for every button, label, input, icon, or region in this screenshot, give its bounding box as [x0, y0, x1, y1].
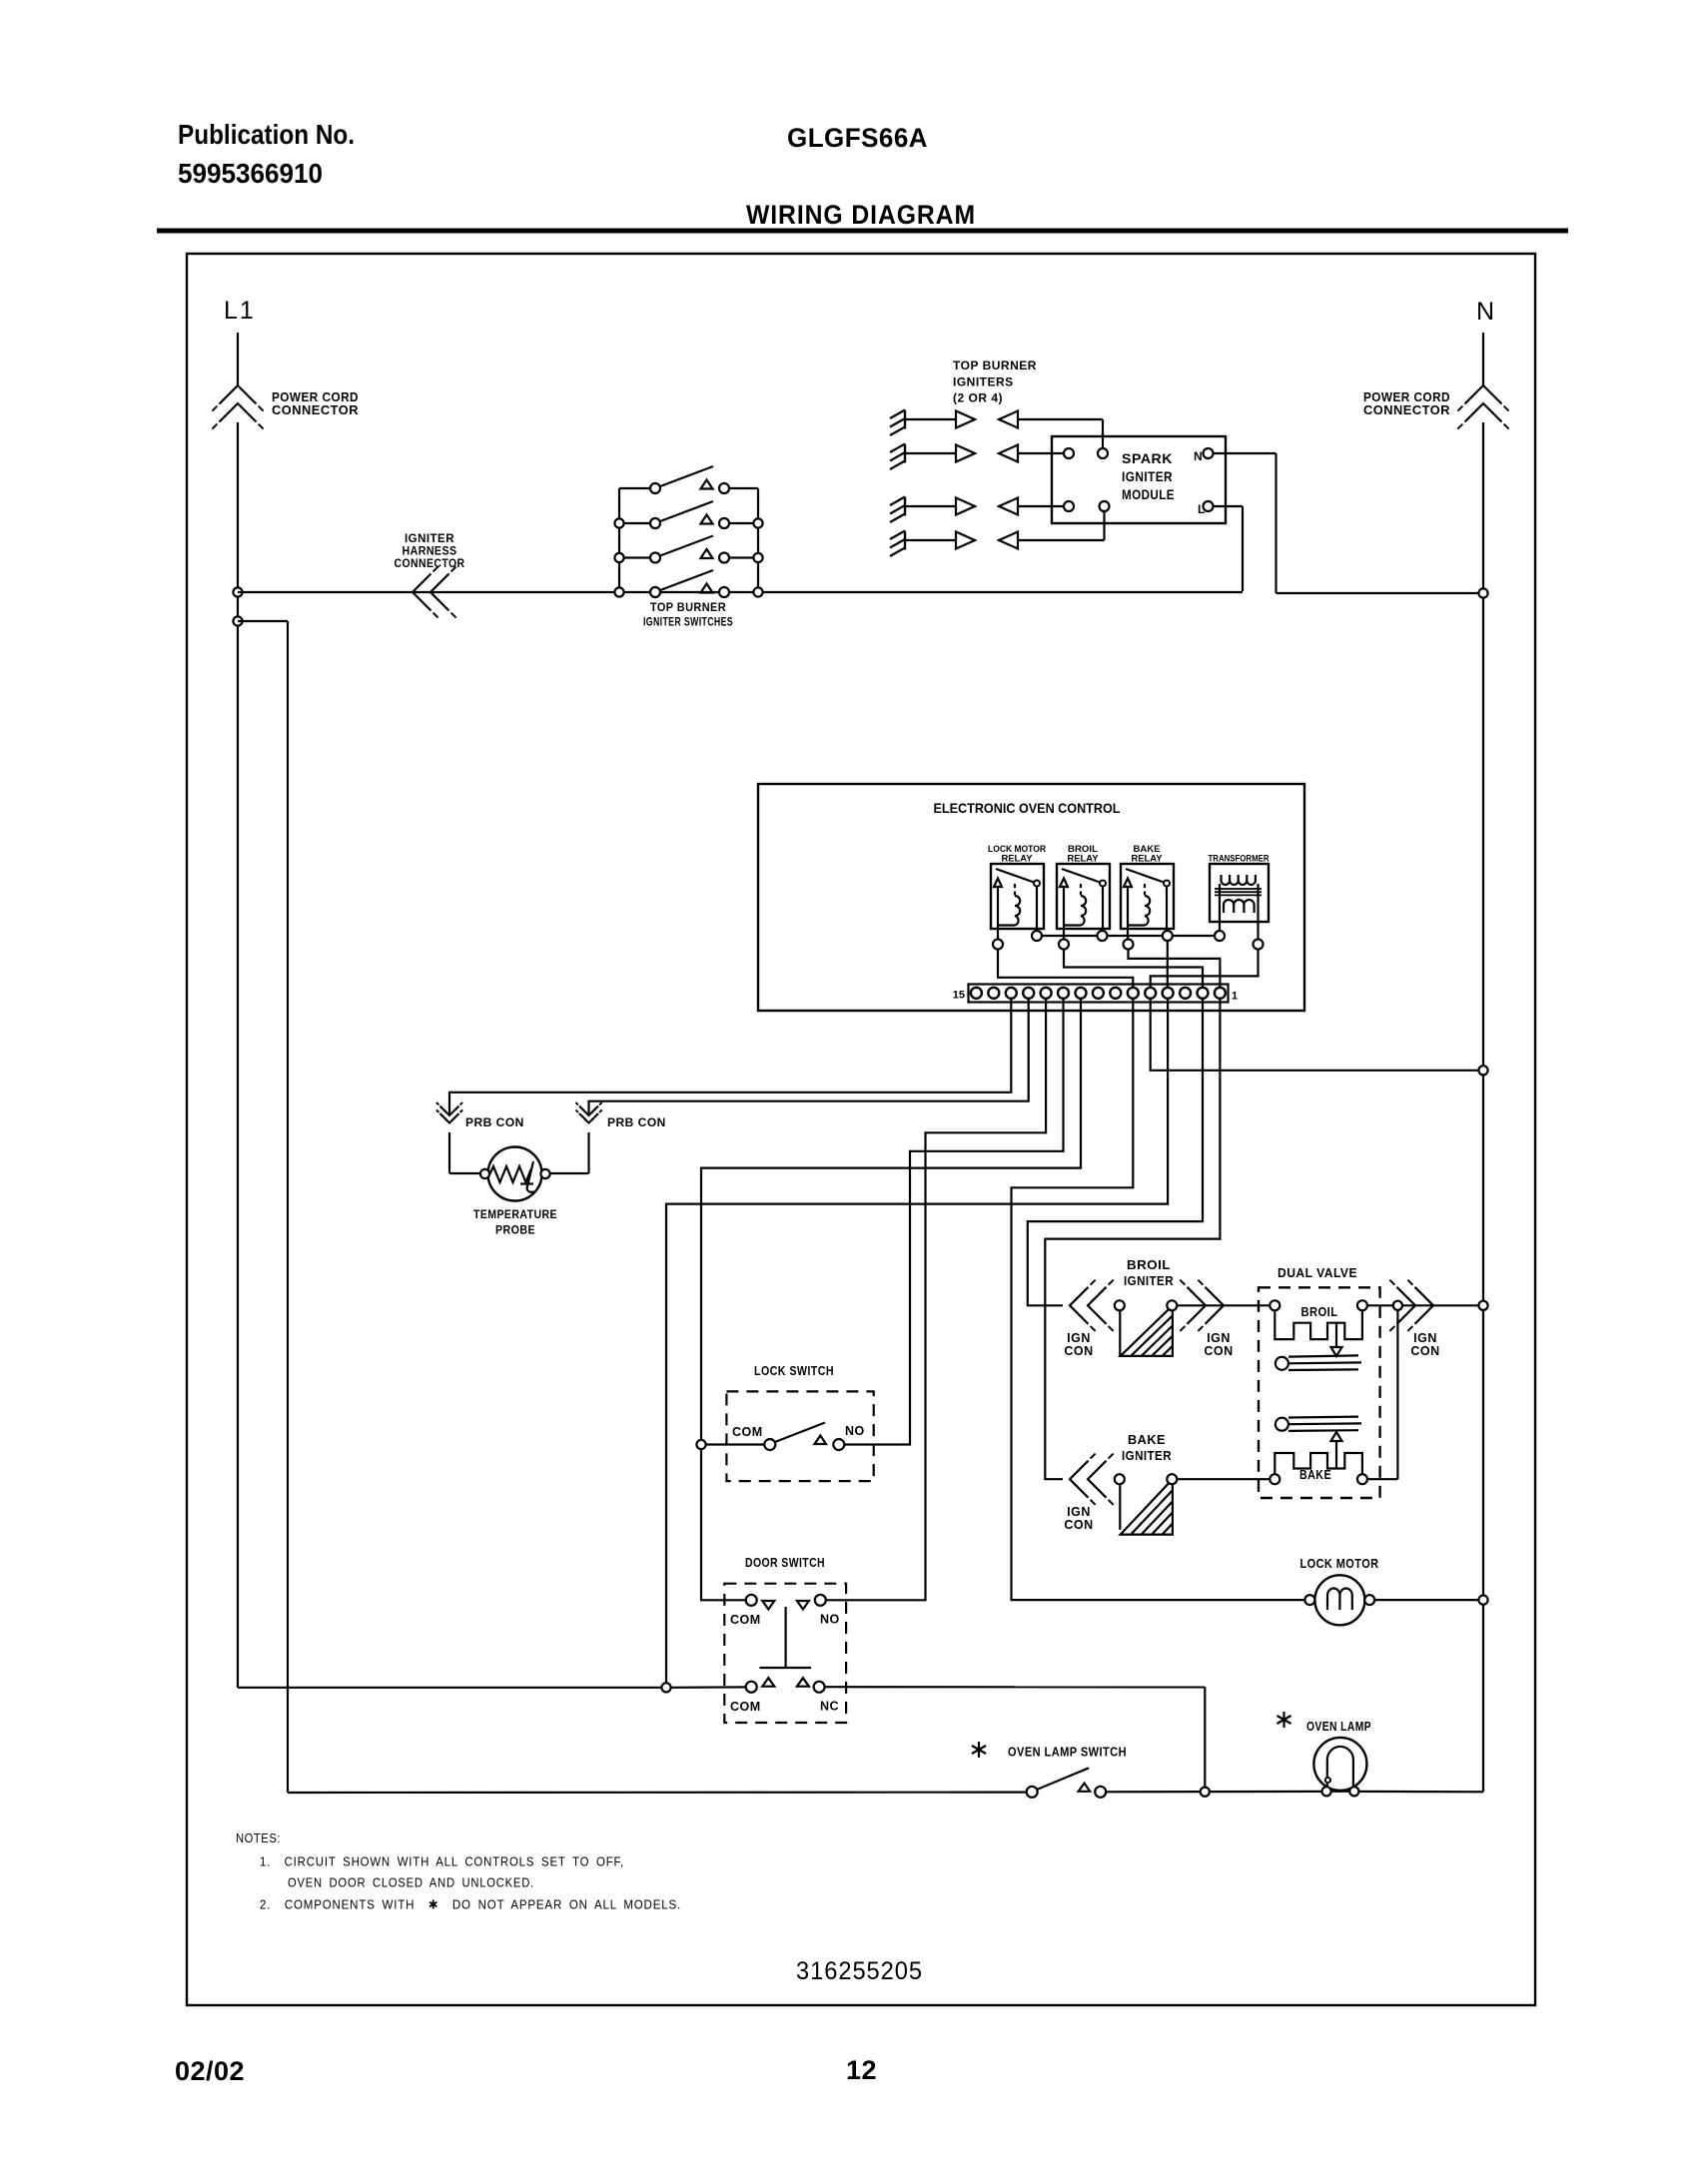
- lock motor M1: [1314, 1575, 1364, 1625]
- wire: pin 13 to probe connector: [449, 999, 1011, 1114]
- svg-text:BROIL: BROIL: [1301, 1305, 1338, 1319]
- module terminal row3: [1064, 501, 1074, 511]
- svg-text:ELECTRONIC OVEN CONTROL: ELECTRONIC OVEN CONTROL: [934, 800, 1121, 816]
- wire: PRB CON 2 to probe: [587, 1132, 589, 1173]
- top burner igniter 1 electrode and spark gap: [904, 410, 906, 429]
- svg-text:CONNECTOR: CONNECTOR: [1363, 403, 1450, 417]
- terminal: lock relay contact: [1032, 931, 1042, 941]
- dual valve box: [1259, 1287, 1380, 1498]
- svg-text:CON: CON: [1064, 1344, 1093, 1358]
- svg-text:(2 OR 4): (2 OR 4): [953, 391, 1003, 405]
- wire: module N to N rail: [1214, 452, 1277, 454]
- terminal: broil relay contact: [1098, 931, 1108, 941]
- relay K3 bake relay: [1121, 864, 1174, 929]
- svg-text:CON: CON: [1064, 1518, 1093, 1532]
- junction: left rail row2: [614, 518, 623, 527]
- valve terminal broil right: [1357, 1300, 1367, 1310]
- wire: pin 1 to bake igniter: [1045, 999, 1220, 1479]
- junction: right rail row3: [753, 553, 762, 562]
- power cord connector (L1): [220, 385, 257, 404]
- asterisk: oven lamp switch: [972, 1742, 986, 1758]
- module terminal row2: [1064, 448, 1074, 458]
- valve terminal bake left: [1270, 1474, 1280, 1484]
- svg-text:Publication No.: Publication No.: [178, 119, 355, 150]
- svg-text:NO: NO: [845, 1424, 865, 1438]
- svg-text:TEMPERATURE: TEMPERATURE: [473, 1207, 557, 1221]
- terminal: bake relay coil: [1124, 940, 1134, 950]
- wire: pin 9 to lock/door switch COM: [701, 999, 1081, 1601]
- wire: door switch NC to lamp wire: [825, 1686, 1206, 1688]
- wire: switch bank right rail: [757, 488, 759, 592]
- lock switch box: [726, 1391, 873, 1481]
- top burner igniter 4 electrode and spark gap: [904, 531, 906, 550]
- svg-text:CON: CON: [1410, 1344, 1439, 1358]
- door switch upper pole: [746, 1595, 757, 1606]
- valve terminal broil left: [1270, 1300, 1280, 1310]
- svg-text:POWER CORD: POWER CORD: [1363, 390, 1450, 404]
- transformer T1: [1210, 864, 1269, 922]
- wire: L1 lead above connector: [237, 333, 239, 385]
- top burner igniter switch 2: [619, 522, 650, 524]
- door switch box: [724, 1584, 846, 1723]
- wire: L1 rail vertical: [237, 422, 239, 1688]
- junction: left rail row3: [614, 553, 623, 562]
- wire: pin 6 to lock motor: [1012, 999, 1305, 1600]
- wire: lamp terminal bridge: [1331, 1791, 1350, 1793]
- svg-text:IGNITER SWITCHES: IGNITER SWITCHES: [643, 615, 733, 629]
- ign con connector (valve right): [1415, 1287, 1434, 1324]
- svg-text:TOP BURNER: TOP BURNER: [650, 600, 726, 614]
- wire: broil coil to pin 2: [1064, 950, 1203, 988]
- svg-text:LOCK MOTOR: LOCK MOTOR: [1300, 1557, 1379, 1571]
- igniter harness connector: [413, 574, 431, 611]
- wire: lock switch COM branch: [706, 1443, 765, 1445]
- wire: lamp to N rail: [1358, 1791, 1483, 1794]
- wire: bake valve to common: [1367, 1478, 1398, 1480]
- wire: pin 2 to broil igniter: [1028, 999, 1203, 1306]
- svg-text:2. COMPONENTS WITH ✱ DO NOT: 2. COMPONENTS WITH ✱ DO NOT APPEAR ON AL…: [260, 1898, 681, 1912]
- wire: module L to main bus: [1214, 505, 1244, 507]
- svg-text:L1: L1: [224, 297, 256, 325]
- wire: bottom lamp feed: [288, 1791, 1027, 1794]
- wire: switch bank left rail: [618, 488, 620, 592]
- terminal: lock relay coil: [993, 940, 1003, 950]
- svg-text:12: 12: [846, 2055, 877, 2085]
- wire: broil igniter to valve: [1177, 1304, 1270, 1306]
- module terminal row1: [1098, 448, 1108, 458]
- module terminal row4: [1100, 501, 1110, 511]
- svg-text:DUAL VALVE: DUAL VALVE: [1278, 1265, 1357, 1280]
- wire: lock coil to pin 6: [998, 950, 1133, 988]
- junction: N wire on N rail: [1478, 588, 1487, 597]
- door switch lower pole: [746, 1682, 757, 1693]
- module terminal N: [1204, 448, 1214, 458]
- wire: main L1 bus horizontal: [238, 591, 1243, 593]
- svg-text:OVEN DOOR CLOSED AND UNLOCKED.: OVEN DOOR CLOSED AND UNLOCKED.: [288, 1876, 534, 1890]
- junction: door NC wire on lamp wire: [1201, 1788, 1210, 1797]
- svg-text:WIRING DIAGRAM: WIRING DIAGRAM: [746, 200, 976, 230]
- svg-text:316255205: 316255205: [796, 1957, 923, 1985]
- electronic oven control box: [758, 784, 1304, 1011]
- relay K1 lock motor relay: [991, 864, 1044, 929]
- asterisk: oven lamp: [1278, 1712, 1291, 1728]
- wire: bake igniter to valve: [1177, 1478, 1270, 1480]
- svg-text:BAKE: BAKE: [1128, 1432, 1166, 1447]
- module terminal L: [1204, 501, 1214, 511]
- temperature probe RT1: [488, 1147, 542, 1201]
- junction: valve common: [1393, 1301, 1402, 1310]
- svg-text:CON: CON: [1204, 1344, 1233, 1358]
- svg-text:IGNITER: IGNITER: [1122, 468, 1173, 484]
- top burner igniter 2 electrode and spark gap: [904, 444, 906, 463]
- junction: pin 9 wire at lock switch: [696, 1440, 705, 1449]
- bake valve solenoid: [1275, 1453, 1362, 1474]
- probe connector PRB CON 1: [440, 1113, 459, 1123]
- junction: left rail row4: [614, 587, 623, 596]
- svg-text:BROIL: BROIL: [1127, 1257, 1171, 1272]
- junction: broil wire on N rail: [1478, 1301, 1487, 1310]
- svg-text:NOTES:: NOTES:: [236, 1831, 281, 1845]
- connector strip pins 15..1: [971, 988, 982, 999]
- wire: transformer right to pin 5: [1151, 950, 1259, 988]
- top burner igniter switch 4: [650, 587, 660, 597]
- wire: lamp switch to lamp: [1106, 1791, 1321, 1794]
- svg-text:02/02: 02/02: [175, 2056, 245, 2086]
- svg-text:N: N: [1476, 298, 1494, 326]
- svg-text:IGNITER: IGNITER: [1122, 1448, 1172, 1463]
- wire: L1 rail to door switch COM: [238, 1687, 661, 1689]
- valve terminal bake right: [1357, 1474, 1367, 1484]
- junction: L1 x main bus: [233, 587, 242, 596]
- terminal: bake relay contact: [1163, 931, 1173, 941]
- bake igniter element: [1115, 1474, 1125, 1484]
- oven lamp DS1: [1313, 1738, 1366, 1791]
- svg-text:IGN: IGN: [1067, 1331, 1091, 1345]
- wire: pin 11 to door switch NO: [826, 999, 1046, 1601]
- wire: pin 5 to N rail: [1151, 999, 1479, 1071]
- svg-text:TOP BURNER: TOP BURNER: [953, 359, 1037, 372]
- oven lamp switch S2: [1027, 1787, 1038, 1798]
- svg-text:COM: COM: [732, 1425, 763, 1439]
- wire: broil valve to N rail: [1367, 1304, 1393, 1306]
- svg-text:DOOR SWITCH: DOOR SWITCH: [745, 1556, 825, 1570]
- wire: pin 10 to lock switch NO: [844, 999, 1063, 1445]
- wire: bake coil to pin 1: [1129, 950, 1221, 988]
- wire: N lead above connector: [1482, 333, 1484, 385]
- terminal: broil relay coil: [1059, 940, 1069, 950]
- ign con connector (bake): [1070, 1461, 1089, 1498]
- svg-text:PROBE: PROBE: [495, 1223, 535, 1237]
- svg-text:COM: COM: [730, 1613, 761, 1627]
- junction: right rail row2: [753, 518, 762, 527]
- svg-text:CONNECTOR: CONNECTOR: [272, 403, 359, 417]
- svg-text:POWER CORD: POWER CORD: [272, 390, 359, 404]
- svg-text:OVEN LAMP: OVEN LAMP: [1306, 1720, 1371, 1734]
- power cord connector (N): [1465, 385, 1502, 404]
- svg-text:GLGFS66A: GLGFS66A: [787, 123, 928, 153]
- top burner igniter 3 electrode and spark gap: [904, 497, 906, 516]
- svg-text:IGN: IGN: [1207, 1331, 1231, 1345]
- wire: lamp branch jog: [238, 620, 288, 622]
- svg-text:IGNITER: IGNITER: [1124, 1273, 1174, 1288]
- svg-text:PRB CON: PRB CON: [607, 1115, 666, 1129]
- svg-text:PRB CON: PRB CON: [465, 1115, 524, 1129]
- junction: right rail row4: [753, 587, 762, 596]
- svg-text:1: 1: [1232, 991, 1238, 1003]
- broil valve arrow: [1335, 1323, 1337, 1347]
- svg-text:NO: NO: [820, 1613, 840, 1627]
- svg-text:CONNECTOR: CONNECTOR: [395, 556, 465, 570]
- broil valve solenoid: [1275, 1310, 1362, 1339]
- svg-text:5995366910: 5995366910: [178, 158, 323, 189]
- svg-text:OVEN LAMP SWITCH: OVEN LAMP SWITCH: [1008, 1746, 1127, 1760]
- probe connector PRB CON 2: [579, 1113, 598, 1123]
- svg-text:15: 15: [953, 990, 965, 1002]
- wire: igniter row1 to module: [1018, 418, 1103, 420]
- wire: pin 4 to door switch COM: [666, 999, 1168, 1683]
- wire: lock motor to N rail: [1374, 1599, 1478, 1601]
- svg-text:SPARK: SPARK: [1122, 450, 1173, 466]
- terminal: transformer right: [1254, 940, 1264, 950]
- svg-text:LOCK SWITCH: LOCK SWITCH: [754, 1364, 834, 1378]
- svg-text:IGN: IGN: [1413, 1331, 1437, 1345]
- terminal: transformer left: [1215, 931, 1225, 941]
- junction: pin 4 wire on door COM wire: [661, 1683, 670, 1692]
- ign con connector (broil right): [1206, 1287, 1225, 1324]
- relay K2 broil relay: [1057, 864, 1110, 929]
- junction: pin 5 wire on N rail: [1478, 1066, 1487, 1075]
- svg-text:NC: NC: [820, 1700, 839, 1714]
- junction: lock motor on N rail: [1478, 1596, 1487, 1605]
- svg-text:N: N: [1194, 449, 1203, 463]
- svg-text:COM: COM: [730, 1700, 761, 1714]
- top burner igniter switch 3: [619, 556, 650, 558]
- svg-text:MODULE: MODULE: [1122, 486, 1175, 502]
- lock switch S1: [764, 1439, 775, 1450]
- title underline rule: [157, 229, 1568, 234]
- spark igniter module box: [1052, 436, 1226, 523]
- connector strip box: [969, 985, 1229, 1003]
- svg-text:IGNITERS: IGNITERS: [953, 375, 1014, 389]
- top burner igniter switch 1: [619, 487, 650, 489]
- broil igniter element: [1115, 1300, 1125, 1310]
- wire: PRB CON 1 to probe: [448, 1132, 450, 1173]
- wire: bake contact to pin 4: [1167, 941, 1169, 988]
- svg-text:BAKE: BAKE: [1299, 1468, 1331, 1482]
- ign con connector (broil left): [1070, 1287, 1089, 1324]
- svg-text:IGN: IGN: [1067, 1505, 1091, 1519]
- wire: N rail vertical: [1482, 422, 1484, 1792]
- bake valve arrow: [1335, 1441, 1337, 1469]
- broil gas outlet: [1276, 1357, 1288, 1370]
- wire: igniter row3 to module: [1018, 505, 1063, 507]
- svg-text:1. CIRCUIT SHOWN WITH ALL CON: 1. CIRCUIT SHOWN WITH ALL CONTROLS SET T…: [260, 1855, 624, 1869]
- door switch actuator: [784, 1607, 786, 1668]
- junction: L1 x lamp branch: [233, 616, 242, 625]
- wire: igniter row2 to module: [1018, 452, 1063, 454]
- wire: pin 12 to probe connector: [589, 999, 1029, 1114]
- wire: igniter row4 to module: [1018, 539, 1105, 541]
- wire: relay common bus: [1042, 935, 1098, 937]
- bake gas outlet: [1276, 1418, 1288, 1431]
